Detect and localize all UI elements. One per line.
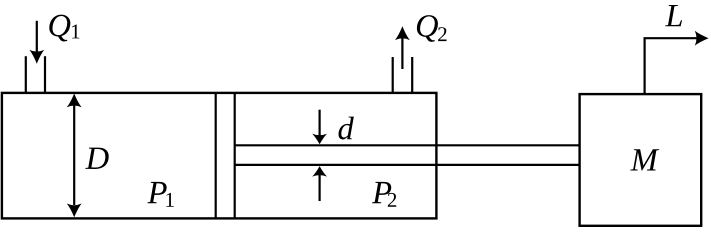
outlet pipe Q2 right line xyxy=(411,57,413,93)
label L xyxy=(665,5,682,26)
rod bottom line xyxy=(235,164,580,166)
d arrowhead upper (down) xyxy=(312,134,327,145)
label D xyxy=(85,148,108,169)
label Q2 xyxy=(417,15,438,42)
piston right line xyxy=(234,93,236,218)
mass M box xyxy=(580,94,702,226)
label M xyxy=(630,149,659,170)
label P2 xyxy=(372,182,391,203)
inlet pipe Q1 right line xyxy=(44,56,46,93)
d arrowhead lower (up) xyxy=(312,166,327,177)
Q2 arrowhead (up) xyxy=(395,26,410,40)
Q1 arrowhead (down) xyxy=(29,50,44,64)
label d xyxy=(338,117,353,140)
piston left line xyxy=(215,93,217,218)
label P1 xyxy=(147,182,166,203)
D dimension arrow shaft xyxy=(73,105,75,205)
D arrowhead bottom (down) xyxy=(67,204,82,218)
d dimension upper arrow shaft xyxy=(319,110,321,136)
inlet pipe Q1 left line xyxy=(25,56,27,93)
d dimension lower arrow shaft xyxy=(319,174,321,201)
rod top line xyxy=(235,144,580,146)
cylinder body (outer box) xyxy=(2,93,437,218)
L arrowhead (right) xyxy=(695,31,709,46)
outlet pipe Q2 left line xyxy=(392,57,394,93)
Q1 arrow shaft xyxy=(36,21,38,52)
L arrow bent line xyxy=(645,38,697,93)
label Q1 xyxy=(49,15,70,42)
Q2 arrow shaft xyxy=(401,38,403,69)
D arrowhead top (up) xyxy=(67,94,82,108)
